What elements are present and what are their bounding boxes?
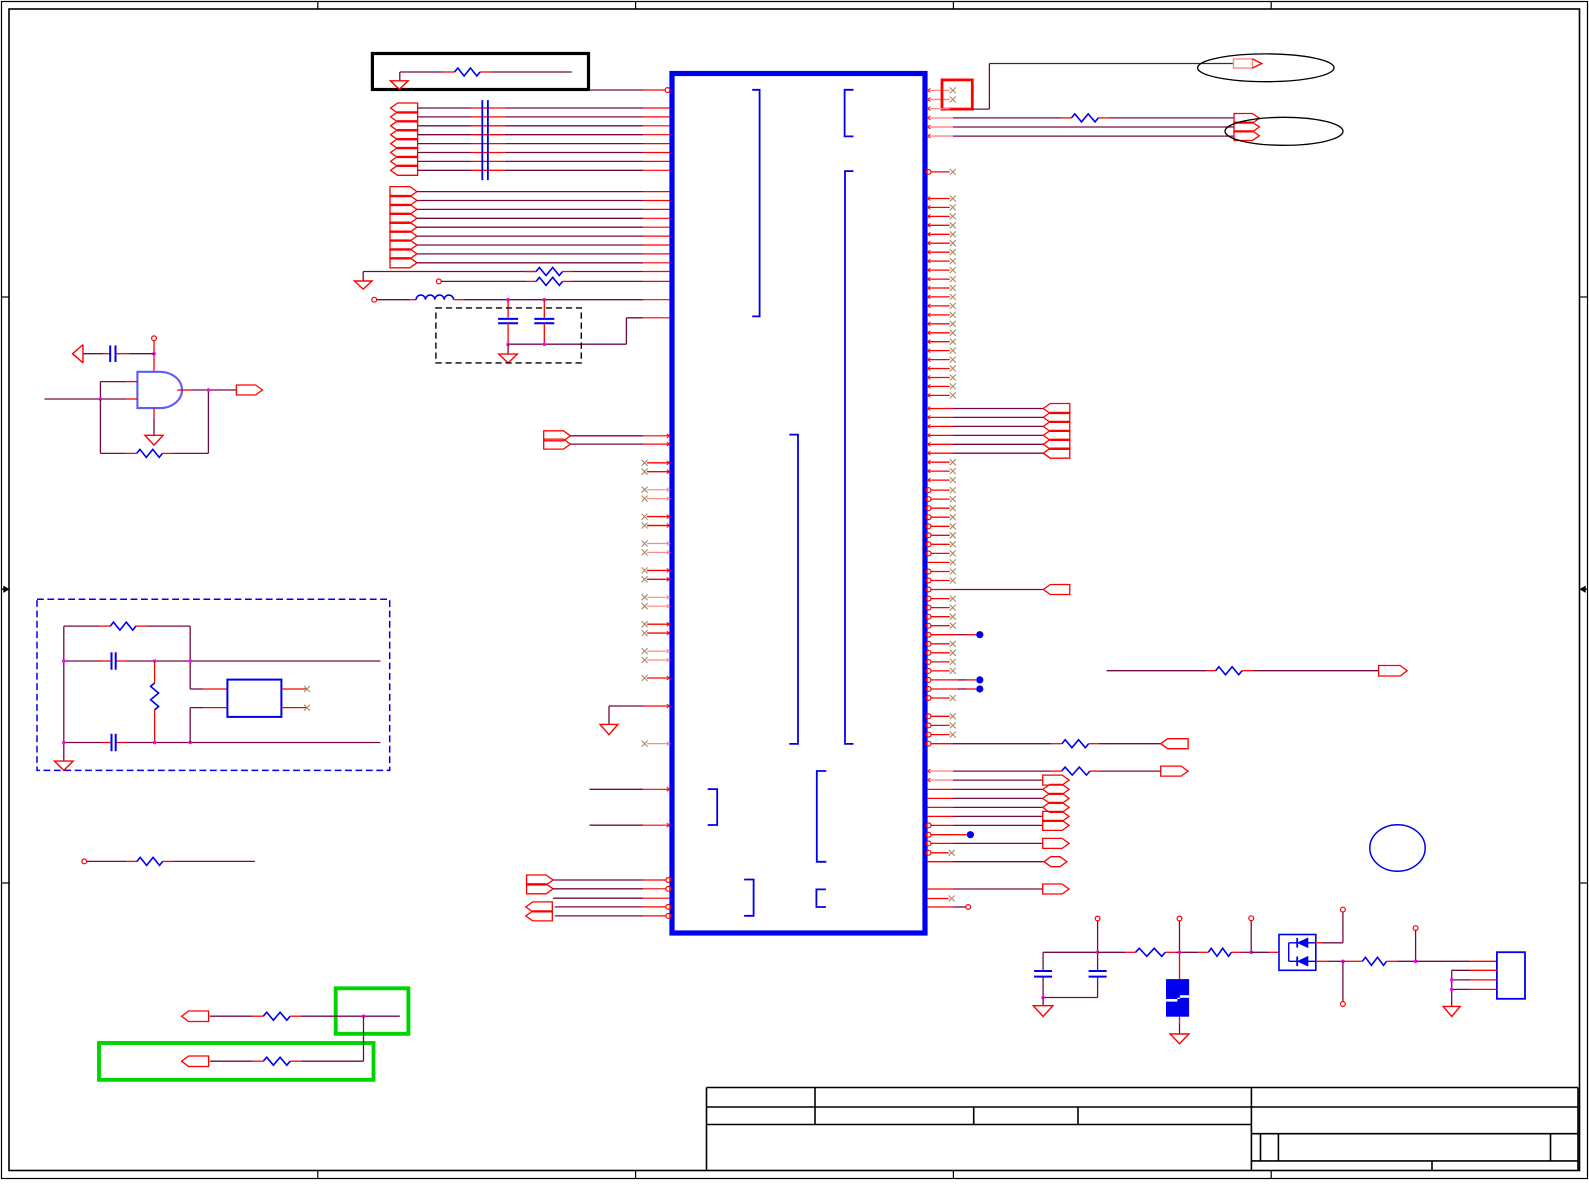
resistor R-X2 (vertical) [151,683,159,710]
port flag y780 [1043,775,1069,785]
wires pair y880 [553,879,643,881]
capacitor C-X2 [111,734,113,751]
highlight box red [942,80,972,109]
feedback bottom wire [100,452,126,454]
no-connect stub y108 [927,108,949,110]
resistor R-B [536,277,563,285]
resistor R-G1 [263,1012,290,1020]
cap C-A lead up [507,300,509,319]
IC U1 bus bracket C [845,171,854,744]
no-connect y898 [927,898,948,900]
junction dots connector [1450,978,1454,982]
port flag green1 [182,1011,209,1022]
cap C-B [534,318,554,320]
wire y907 end bubble [927,906,953,908]
cap C-A lead down [507,323,509,344]
port flag TP1 [1234,59,1253,68]
junction dot main3 [1249,951,1253,955]
bubbled pins group y716 + wire y743 [926,713,1188,748]
port flag pair y880 [527,875,554,885]
resistor R-free [1216,667,1242,675]
resistor R_topbox [455,68,480,76]
wire R-L start bubble [82,859,87,864]
wires+flags stack y789-816 [927,784,1069,821]
wire cap to arrow [83,353,103,355]
frame center arrow right [1580,588,1588,590]
resistor R_topbox leads [400,71,444,73]
port flags group2 (right-point, 9) [390,187,417,268]
port flag free y670 [1379,666,1408,677]
port flags group1 (left, 8) [391,103,418,175]
resistor R-A [536,268,563,276]
vertical resistor branch [154,661,156,683]
AND output flag [236,385,262,395]
junction dot (AND top) [152,352,156,356]
wires group2 to U1 [417,192,670,263]
AND input2 wire [45,398,127,400]
drop to bubble low [1342,961,1344,1001]
wires pair y435 [570,435,643,437]
wire L1 start bubble [372,297,377,302]
fuse lead top [1179,952,1181,979]
power bubble P4 [1249,916,1254,921]
no-connect x (crystal2) [304,705,310,711]
wire TP2c [927,135,953,137]
resistor R-L [137,857,163,865]
wire y898 [553,897,643,899]
highlight box (black) [372,54,588,90]
crystal right stubs [281,688,307,690]
no-connect pin R2 (y99) [927,99,949,101]
wire TP2a (resistor) [927,117,953,119]
junction dot main1 [1096,951,1100,955]
IC U1 bus bracket A [752,90,759,317]
diode bottom out [1316,960,1328,962]
port flag green2 [182,1056,209,1067]
power bubble P3 [1177,916,1182,921]
wire R-A [363,271,536,273]
wire R-B [441,280,526,282]
port flag y771 [1161,766,1188,776]
feedback riser left [99,399,101,453]
crystal riser lower [189,708,191,743]
connector gnd tree [1451,970,1453,1006]
wire gnd y706 [609,705,643,707]
wires to flag group R6 [927,407,1043,456]
cap C-A [498,318,518,320]
feedback riser right [207,390,209,453]
frame center arrow left [2,588,10,590]
title block [707,1088,1579,1171]
highlight box green long [99,1043,374,1080]
ground (y706) [600,724,618,734]
bubble pin y852 [926,850,931,855]
wire bottom rail [1043,997,1098,999]
highlight box green small [336,988,409,1034]
wire green1 [210,1015,253,1017]
ground (wire R-A) [354,281,372,289]
connector J1 body [1497,952,1525,999]
AND input1 wire [100,381,126,383]
cap C-P2 branch [1097,921,1099,971]
main wire seg6 [1416,960,1470,962]
no-connect pins (3) below R6 [927,459,955,483]
rail left vertical [63,626,65,761]
junction dot capbot [1041,996,1045,1000]
wires group1 to U1 [418,108,670,170]
riser P3 [1179,921,1181,952]
IC U1 bus bracket D [789,435,798,744]
crystal Y1 body [227,680,281,717]
port flag pair y435 [544,431,571,441]
green riser [363,1016,365,1061]
dual diode D1 [1279,935,1316,971]
ground (fuse) [1170,1034,1189,1044]
top branch riser [189,626,191,689]
wire y780 [927,779,953,781]
wire y843 bubble flag [926,841,931,846]
wire y789 [590,788,644,790]
IC U1 bus bracket E [817,771,827,862]
wire net to flag1 [972,108,989,110]
ground (cap rail) [507,344,509,354]
ellipse marker blue [1370,825,1425,871]
main wire seg1 [1098,951,1126,953]
resistor R-y771 [1062,767,1090,775]
power bubble (AND circuit) [152,336,157,341]
wire R-A ground drop [362,272,364,282]
resistor R-G2 [263,1057,290,1065]
junction dot (AND out) [207,388,211,392]
wire cap bottom rail [508,343,626,345]
wire y861 hex flag [927,861,953,863]
resistor R-P1 [1136,948,1166,956]
main wire seg3 [1231,951,1241,953]
fuse F1 body [1166,979,1189,1017]
ground (AND gate) [145,435,163,445]
riser P7 [1415,931,1417,962]
wire R-L [87,860,128,862]
ground (connector) [1443,1006,1460,1016]
no-connect pin y743 [647,743,670,745]
capacitor C-AND [109,345,111,362]
junction dot P6 [1341,960,1345,964]
ground (cap C-P1) [1042,998,1044,1006]
power bubble P7 [1413,926,1418,931]
bubbled no-connect pins U1 right [926,487,1070,701]
bottom wire [64,742,102,744]
wire to ground in black box [399,72,401,81]
port flags TP2 (3) [1234,114,1259,124]
port flags R6 (left-point) [1043,404,1070,459]
top branch wire [64,625,100,627]
dashed box (crystal circuit) [37,599,390,770]
cap C-B lead down [543,323,545,344]
power bubble P5 [1341,907,1346,912]
resistor R-P2 [1208,948,1231,956]
IC U1 bus bracket G [744,880,754,916]
no-connect x (crystal1) [304,686,310,692]
riser P4 [1250,921,1252,953]
crystal stub upper [190,688,203,690]
wire R-B start bubble [436,279,441,284]
AND input riser [99,382,101,399]
wire y834 blue dot [926,832,931,837]
wire y771 w/ resistor [927,770,953,772]
no-connect pins U1 right column [927,196,955,399]
diode top out wire [1316,942,1322,944]
bus stub lines (blue pair) [481,100,483,180]
wire green2 [210,1060,253,1062]
power bubble P2 [1095,916,1100,921]
cap C-B lead up [543,300,545,319]
junction dot P7 [1414,960,1418,964]
no-connect pins U1 left edge [642,460,670,681]
main wire into diode box [1251,951,1269,953]
inverted pin bubble U1 pin1 [665,88,670,93]
junction dot main2 [1178,951,1182,955]
ellipse marker 2 [1225,117,1343,145]
main wire seg5 [1387,960,1398,962]
resistor R-TP [1072,114,1099,122]
bubble pin y171 [926,170,931,175]
wire y825 [590,824,644,826]
no-connect pin R1 (y90) [927,89,949,91]
fuse lead bottom [1179,1017,1181,1024]
junction dots mid wire [62,659,66,663]
wires pair y906 [555,906,643,908]
cap C-P1 branch [1042,952,1044,971]
AND output wire [177,389,191,391]
arrow port (left) [73,345,84,363]
wire from black box to U1 pin1 [589,89,644,91]
dashed box (caps) [436,308,581,363]
wire L1 to U1 [454,299,464,301]
ground (crystal rail) [55,761,74,770]
main wire seg4 [1343,960,1352,962]
wire L1 segs [377,299,410,301]
ground (black box) [390,81,408,90]
resistor R-AND [137,449,163,457]
port flag hex y861 [1044,857,1067,867]
junction dots bottom wire [62,741,66,745]
wire y825 bubble flag [926,823,931,828]
IC U1 bus bracket B [845,90,854,137]
wire top rail left [1043,951,1098,953]
wire AND vcc drop [153,354,155,372]
resistor R-X [110,622,136,630]
junction dots cap rail [506,342,510,346]
wire free y670 [1107,670,1207,672]
port flag pair y906 (left) [526,902,553,912]
IC U1 bus bracket H [816,889,826,907]
AND gate U2 [137,372,182,408]
capacitor C-X1 [111,652,113,669]
IC U1 body [672,74,925,934]
junction dots on L1 wire [506,298,510,302]
junction dot green [362,1014,366,1018]
resistor R-P3 [1362,957,1386,965]
main wire seg2 [1165,951,1175,953]
inductor L1 [416,295,453,300]
junction dot (AND in2) [99,397,103,401]
wire riser to U1 pin y317 [625,318,627,344]
mid wire [64,660,102,662]
AND gate ground lead [153,408,155,418]
wire TP2b [927,126,953,128]
ellipse marker 1 [1198,54,1334,82]
wire bubble to junction [153,341,155,354]
IC U1 bus bracket F [708,789,718,825]
wire y889 flag [927,888,953,890]
